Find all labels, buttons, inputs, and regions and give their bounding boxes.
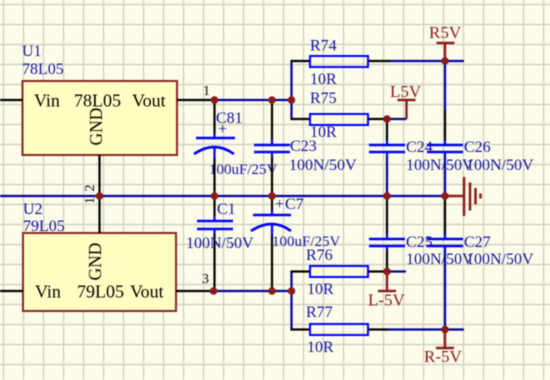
svg-text:100N/50V: 100N/50V — [289, 157, 357, 174]
svg-text:Vout: Vout — [130, 282, 164, 302]
svg-text:R77: R77 — [306, 304, 333, 321]
U1 Vin pin — [0, 99, 23, 101]
wire: R76 left stub — [291, 270, 311, 272]
svg-text:+: + — [218, 121, 227, 138]
svg-text:R74: R74 — [310, 38, 337, 55]
capacitor C27 — [427, 196, 534, 330]
junction at R74/R75 branch — [288, 96, 296, 104]
svg-text:100N/50V: 100N/50V — [466, 157, 534, 174]
power R-5V — [436, 330, 454, 349]
wire: R77 left stub — [291, 328, 311, 330]
svg-text:Vout: Vout — [132, 91, 166, 111]
svg-text:R75: R75 — [310, 90, 337, 107]
junction at C23 top — [268, 96, 276, 104]
junction at GND pins / mid rail — [96, 192, 104, 200]
junction at R-5V node — [441, 326, 449, 334]
regulator U1 body — [23, 81, 178, 155]
svg-text:79L05: 79L05 — [77, 282, 124, 302]
wire: vertical to R74/R75 left — [290, 60, 292, 120]
power L5V — [398, 100, 416, 119]
junction at C81/C1 mid rail — [211, 192, 219, 200]
svg-text:C7: C7 — [285, 196, 304, 213]
wire: Vout1 rail y=100 — [215, 99, 292, 101]
wire: Vout2 rail y=291 — [214, 290, 292, 292]
junction at pin 3 — [210, 287, 218, 295]
wire: R77 right — [368, 328, 388, 330]
svg-text:78L05: 78L05 — [74, 91, 121, 111]
svg-text:GND: GND — [85, 243, 105, 281]
wire: R74 left stub — [291, 60, 311, 62]
svg-text:1: 1 — [83, 197, 98, 204]
svg-text:C24: C24 — [406, 139, 433, 156]
svg-text:100N/50V: 100N/50V — [406, 157, 474, 174]
svg-text:100N/50V: 100N/50V — [186, 235, 254, 252]
svg-text:C23: C23 — [290, 138, 317, 155]
svg-text:R-5V: R-5V — [424, 347, 463, 366]
junction at C24/C25 mid rail — [383, 192, 391, 200]
resistor R77 — [310, 324, 368, 335]
power R5V — [437, 43, 455, 61]
junction at R76/R77 branch — [288, 287, 296, 295]
U1/U2 GND pins vertical — [98, 155, 100, 233]
svg-text:U2: U2 — [23, 201, 43, 218]
svg-text:10R: 10R — [310, 71, 337, 88]
wire: R76 right to L-5V node — [368, 270, 387, 272]
svg-text:C26: C26 — [464, 139, 491, 156]
wire: vertical to R76/R77 left — [290, 271, 292, 330]
svg-text:3: 3 — [202, 272, 209, 287]
junction at L-5V node — [383, 268, 391, 276]
U2 Vin pin — [0, 290, 23, 292]
regulator U2 body — [23, 233, 176, 311]
capacitor C25 — [369, 196, 474, 272]
resistor R75 — [310, 114, 368, 125]
junction at ground node — [441, 192, 449, 200]
svg-text:10R: 10R — [307, 281, 334, 298]
power L-5V — [378, 272, 396, 292]
svg-text:100N/50V: 100N/50V — [406, 251, 474, 268]
capacitor C23 — [254, 100, 357, 196]
svg-text:+: + — [275, 196, 284, 213]
capacitor C1 — [186, 196, 254, 291]
svg-text:Vin: Vin — [35, 282, 61, 302]
svg-text:79L05: 79L05 — [23, 218, 65, 235]
U1 Vout pin — [177, 99, 215, 101]
capacitor C7 (polar) — [251, 196, 341, 291]
svg-text:100N/50V: 100N/50V — [466, 251, 534, 268]
svg-text:2: 2 — [83, 185, 98, 192]
svg-text:C27: C27 — [464, 234, 491, 251]
main mid rail — [0, 195, 445, 197]
svg-text:R5V: R5V — [429, 23, 462, 42]
svg-text:U1: U1 — [22, 43, 42, 60]
resistor R76 — [310, 266, 368, 277]
wire: R75 left stub — [291, 118, 311, 120]
capacitor C81 (polar) — [194, 100, 278, 196]
wire: R75 right to L5V node — [368, 118, 387, 120]
wire: R74 right — [368, 60, 390, 62]
svg-text:78L05: 78L05 — [22, 61, 64, 78]
junction at R5V node — [441, 57, 449, 65]
svg-text:10R: 10R — [307, 339, 334, 356]
capacitor C24 — [369, 119, 474, 196]
svg-text:Vin: Vin — [34, 91, 60, 111]
svg-text:1: 1 — [203, 84, 210, 99]
U2 Vout pin — [176, 290, 214, 292]
svg-text:GND: GND — [86, 108, 106, 146]
svg-text:L-5V: L-5V — [368, 291, 406, 310]
capacitor C26 — [427, 61, 534, 196]
svg-text:L5V: L5V — [390, 82, 422, 101]
junction at C23/C7 mid rail — [268, 192, 276, 200]
junction at L5V node — [383, 115, 391, 123]
svg-text:C1: C1 — [217, 201, 236, 218]
junction at pin 1 / C81 — [211, 96, 219, 104]
svg-text:100uF/25V: 100uF/25V — [209, 162, 278, 178]
junction at C7 bottom — [268, 287, 276, 295]
ground symbol — [445, 177, 481, 216]
svg-text:C25: C25 — [406, 234, 433, 251]
resistor R74 — [310, 56, 368, 67]
svg-text:R76: R76 — [306, 247, 333, 264]
